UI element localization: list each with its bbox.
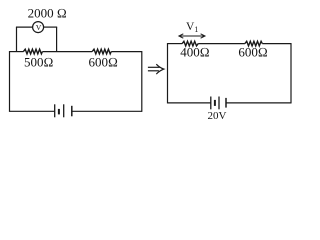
svg-text:V: V (36, 23, 42, 32)
wire: left circuit bottom, battery to right corner (72, 110, 142, 112)
resistor R3 400Ω zigzag (182, 41, 198, 46)
wire: voltmeter branch top-right segment (44, 26, 58, 28)
wire: right circuit right side vertical (290, 43, 292, 103)
wire: left circuit top side, left lead (10, 51, 24, 53)
battery B1 plate 1 (long) (54, 104, 56, 117)
wire: right circuit bottom, battery to right corner (226, 102, 291, 104)
right circuit: wire top side right lead (262, 43, 291, 45)
battery B2 plate 4 (225, 98, 227, 108)
resistor R1 500Ω zigzag (23, 49, 42, 54)
right circuit: wire between R3 and R4 (198, 43, 245, 45)
wire: left circuit bottom, lead to battery B1 (10, 110, 55, 112)
resistor R4 600Ω zigzag (245, 41, 262, 46)
svg-text:20V: 20V (208, 110, 227, 122)
wire: voltmeter branch top-left segment (16, 26, 33, 28)
wire: right circuit left side vertical (167, 43, 169, 103)
wire: left circuit top side, between R1 and R2 (42, 51, 92, 53)
svg-text:V1: V1 (186, 21, 198, 34)
battery B2 plate 1 (long) (210, 97, 212, 110)
svg-text:600Ω: 600Ω (89, 54, 119, 69)
svg-text:2000 Ω: 2000 Ω (28, 6, 67, 21)
dimension arrow for V1 (double-headed) (179, 34, 205, 38)
wire: right circuit bottom, lead to battery B2 (168, 102, 211, 104)
voltmeter V circle (33, 22, 44, 33)
wire: left circuit top side, right lead (111, 51, 142, 53)
svg-text:400Ω: 400Ω (180, 45, 210, 60)
right circuit: wire top side left lead (168, 43, 183, 45)
battery B1 plate 2 (short thick) (58, 109, 60, 115)
svg-text:600Ω: 600Ω (238, 45, 268, 60)
battery B1 plate 4 (71, 106, 73, 117)
battery B2 plate 3 (long) (218, 97, 220, 110)
wire: voltmeter branch left leg (16, 27, 18, 51)
implication arrow ⇒ between circuits (148, 64, 164, 74)
svg-text:500Ω: 500Ω (24, 54, 54, 69)
wire: left circuit right side vertical (141, 51, 143, 112)
wire: left circuit left side vertical (9, 51, 11, 112)
battery B1 plate 3 (long) (63, 104, 65, 117)
resistor R2 600Ω zigzag (92, 49, 111, 54)
battery B2 plate 2 (short thick) (214, 100, 216, 106)
wire: voltmeter branch right leg (56, 27, 58, 51)
